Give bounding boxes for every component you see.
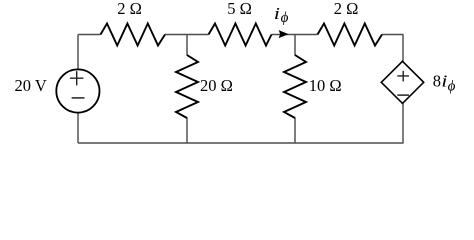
voltage source V1 circle — [56, 69, 99, 112]
resistor R4 20ohm vertical zigzag — [176, 55, 198, 118]
svg-text:i: i — [441, 73, 447, 91]
wire R20 to bottom — [186, 118, 188, 144]
svg-text:2 Ω: 2 Ω — [117, 0, 142, 18]
wire node B down to R10 — [294, 35, 296, 56]
wire R2 to node B — [272, 34, 296, 36]
dependent source diamond — [381, 61, 423, 103]
svg-text:2 Ω: 2 Ω — [334, 0, 359, 18]
wire node A to R2 — [187, 34, 209, 36]
resistor R1 2ohm zigzag — [101, 24, 166, 46]
current arrow i_phi — [279, 30, 289, 38]
wire left vertical below source — [77, 113, 79, 144]
svg-text:ϕ: ϕ — [281, 10, 289, 26]
resistor R2 5ohm zigzag — [209, 24, 272, 46]
minus sign in V1 — [72, 97, 85, 99]
wire right vertical above diamond — [402, 35, 404, 63]
resistor R3 2ohm zigzag — [318, 24, 383, 46]
plus sign in diamond — [397, 71, 409, 82]
wire left vertical above source — [77, 35, 79, 71]
wire node A down to R20 — [186, 35, 188, 56]
wire right vertical below diamond — [402, 103, 404, 143]
svg-text:i: i — [274, 5, 280, 23]
wire top-left horizontal — [78, 34, 101, 36]
wire R3 to top-right corner — [382, 34, 404, 36]
plus sign in V1 — [70, 71, 84, 85]
svg-text:20 V: 20 V — [15, 76, 47, 95]
wire node B to R3 — [295, 34, 318, 36]
svg-text:10 Ω: 10 Ω — [309, 76, 342, 95]
wire R1 to node A — [165, 34, 187, 36]
resistor R5 10ohm vertical zigzag — [284, 55, 306, 118]
wire R10 to bottom — [294, 118, 296, 144]
svg-text:20 Ω: 20 Ω — [200, 76, 233, 95]
minus sign in diamond — [397, 94, 409, 96]
svg-text:8: 8 — [433, 72, 441, 91]
svg-text:ϕ: ϕ — [448, 79, 456, 95]
wire bottom — [78, 142, 404, 144]
svg-text:5 Ω: 5 Ω — [227, 0, 252, 18]
